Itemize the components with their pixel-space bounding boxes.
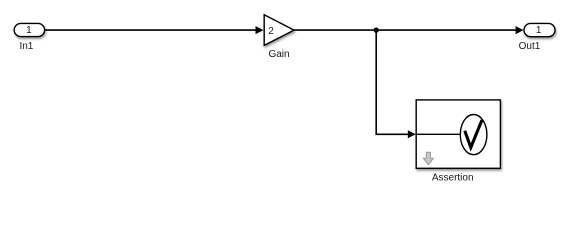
svg-text:Out1: Out1 bbox=[519, 41, 541, 52]
outport block Out1 bbox=[524, 23, 555, 36]
inport block In1 bbox=[14, 23, 44, 36]
wire Gain to Out1 bbox=[294, 29, 517, 31]
gain block Gain bbox=[264, 15, 294, 46]
svg-text:In1: In1 bbox=[19, 41, 33, 52]
wire junction down to Assertion bbox=[376, 30, 408, 134]
assertion internal signal line bbox=[417, 133, 461, 135]
assertion block Assertion bbox=[416, 100, 500, 168]
svg-text:1: 1 bbox=[26, 25, 32, 36]
svg-text:Assertion: Assertion bbox=[432, 173, 474, 184]
assertion icon circle bbox=[460, 115, 487, 155]
wire In1 to Gain bbox=[45, 29, 257, 31]
arrowhead into Assertion bbox=[408, 130, 416, 138]
harness badge gray arrow bbox=[423, 152, 433, 165]
junction node bbox=[374, 27, 379, 32]
arrowhead into Gain bbox=[256, 26, 264, 34]
svg-text:1: 1 bbox=[536, 25, 542, 36]
svg-text:Gain: Gain bbox=[268, 49, 289, 60]
arrowhead into Out1 bbox=[516, 26, 524, 34]
svg-text:2: 2 bbox=[268, 26, 274, 37]
assertion checkmark bbox=[465, 120, 482, 147]
